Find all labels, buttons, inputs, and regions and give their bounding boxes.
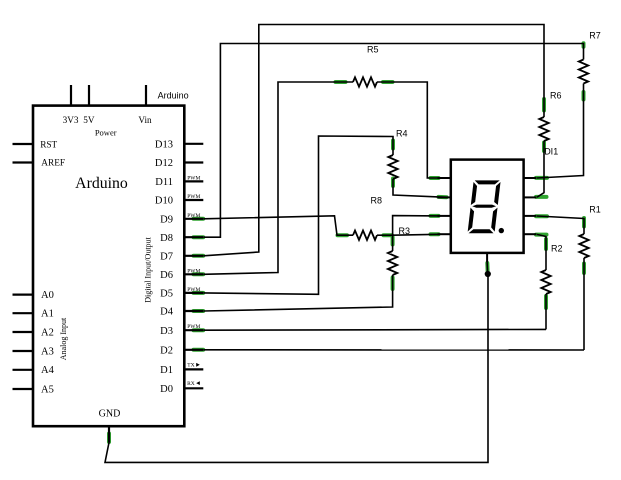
- svg-text:D10: D10: [155, 196, 173, 207]
- svg-text:D12: D12: [155, 158, 173, 169]
- svg-text:R3: R3: [399, 226, 411, 236]
- svg-text:D11: D11: [155, 177, 173, 188]
- svg-text:D6: D6: [160, 270, 173, 281]
- svg-text:D3: D3: [160, 326, 173, 337]
- svg-text:D5: D5: [160, 289, 173, 300]
- svg-text:PWM: PWM: [187, 175, 200, 181]
- svg-text:PWM: PWM: [187, 268, 200, 274]
- svg-text:Analog Input: Analog Input: [59, 317, 68, 360]
- svg-text:R8: R8: [371, 196, 383, 206]
- svg-text:PWM: PWM: [187, 194, 200, 200]
- svg-text:R2: R2: [551, 244, 563, 254]
- svg-text:D0: D0: [160, 384, 173, 395]
- svg-text:A2: A2: [41, 327, 54, 338]
- svg-text:R4: R4: [396, 129, 408, 139]
- svg-text:R5: R5: [367, 45, 379, 55]
- svg-text:R6: R6: [550, 91, 562, 101]
- svg-text:A4: A4: [41, 365, 55, 376]
- svg-text:D7: D7: [160, 251, 173, 262]
- svg-text:A3: A3: [41, 346, 54, 357]
- svg-text:R7: R7: [589, 31, 601, 41]
- svg-text:PWM: PWM: [187, 213, 200, 219]
- svg-text:D8: D8: [160, 233, 173, 244]
- svg-text:3V3: 3V3: [63, 115, 79, 125]
- svg-text:RX: RX: [187, 381, 195, 387]
- svg-text:D13: D13: [155, 139, 173, 150]
- svg-text:R1: R1: [589, 205, 601, 215]
- svg-text:5V: 5V: [83, 115, 95, 125]
- svg-text:DI1: DI1: [544, 147, 558, 157]
- svg-text:GND: GND: [99, 409, 121, 420]
- svg-text:PWM: PWM: [187, 287, 200, 293]
- svg-text:D9: D9: [160, 214, 173, 225]
- svg-text:D4: D4: [160, 307, 174, 318]
- svg-text:Digital Input/Output: Digital Input/Output: [144, 236, 153, 302]
- svg-text:TX: TX: [187, 363, 194, 369]
- svg-text:A0: A0: [41, 290, 54, 301]
- svg-text:Arduino: Arduino: [158, 91, 189, 101]
- svg-text:RST: RST: [40, 140, 57, 150]
- svg-text:PWM: PWM: [187, 324, 200, 330]
- svg-text:Power: Power: [95, 128, 117, 138]
- svg-text:D2: D2: [160, 345, 173, 356]
- svg-text:Vin: Vin: [138, 115, 152, 125]
- svg-text:Arduino: Arduino: [75, 175, 128, 192]
- svg-text:A5: A5: [41, 384, 54, 395]
- svg-text:D1: D1: [160, 365, 173, 376]
- svg-text:AREF: AREF: [41, 159, 65, 169]
- svg-text:A1: A1: [41, 309, 54, 320]
